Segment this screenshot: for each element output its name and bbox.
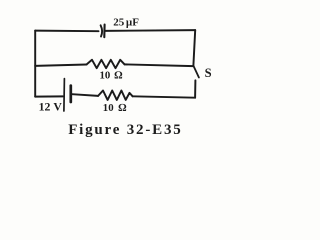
battery 12V: long plate (positive) [63, 79, 66, 111]
switch S: lower contact wire [194, 80, 196, 97]
capacitor C 25uF: curved plate [101, 25, 103, 36]
svg-text:S: S [205, 66, 212, 80]
switch S: blade [194, 66, 199, 78]
svg-text:µF: µF [126, 16, 139, 28]
resistor R1 10ohm (middle branch) zigzag [87, 60, 125, 68]
capacitor C 25uF: straight plate [103, 25, 105, 38]
wire: left vertical branch [34, 31, 36, 97]
svg-text:Ω: Ω [118, 102, 126, 114]
wire: middle horizontal, right of resistor to switch [125, 64, 194, 66]
wire: middle horizontal, left of resistor [35, 65, 86, 66]
svg-text:Figure 32-E35: Figure 32-E35 [68, 122, 182, 138]
wire: top horizontal, left of capacitor [35, 30, 98, 33]
svg-text:10: 10 [103, 102, 114, 114]
wire: top horizontal, right of capacitor [106, 29, 196, 32]
battery 12V: short thick plate (negative) [69, 86, 72, 102]
wire: bottom horizontal, left of battery [35, 95, 63, 97]
svg-text:10: 10 [100, 70, 111, 82]
wire: bottom horizontal, right of resistor [133, 96, 196, 97]
resistor R2 10ohm (bottom branch) zigzag [98, 91, 133, 100]
svg-text:12: 12 [39, 99, 51, 113]
svg-text:25: 25 [113, 16, 125, 28]
svg-text:V: V [53, 99, 62, 113]
wire: right vertical from top corner to switch [193, 30, 195, 65]
wire: bottom horizontal, battery to resistor [72, 94, 98, 96]
svg-text:Ω: Ω [114, 70, 122, 82]
